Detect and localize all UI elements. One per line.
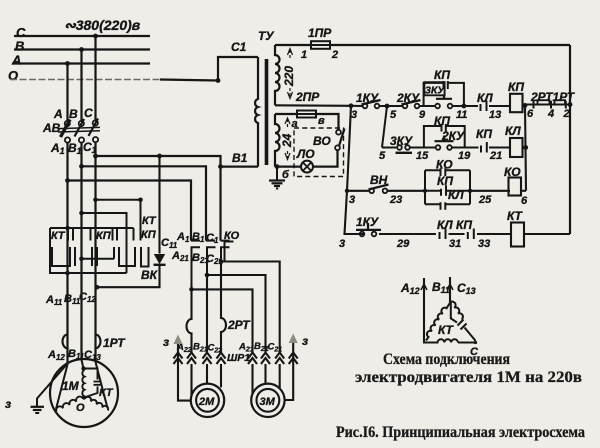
motor 1M stator circle xyxy=(50,359,118,427)
wire fuse to VO switch xyxy=(316,114,339,130)
svg-text:B: B xyxy=(69,107,78,121)
wire C22 down with 2RT heater xyxy=(221,262,226,353)
wire 24V bottom b xyxy=(275,166,301,168)
wire 24V tap a to fuse xyxy=(275,113,297,115)
wire B21 tap to 3M xyxy=(207,275,266,352)
wire net B1 xyxy=(82,166,207,240)
svg-text:2М: 2М xyxy=(198,396,215,408)
wires into motor 2M xyxy=(192,364,222,396)
svg-text:∾380(220)в: ∾380(220)в xyxy=(64,17,141,33)
svg-text:ВК: ВК xyxy=(141,268,159,282)
svg-text:КТ: КТ xyxy=(51,230,66,242)
svg-text:3КУ: 3КУ xyxy=(425,85,445,97)
svg-text:O: O xyxy=(8,68,18,83)
svg-text:КП: КП xyxy=(508,80,524,94)
contact block upper bus xyxy=(50,227,134,229)
wire control row 3 xyxy=(347,190,510,192)
svg-text:з: з xyxy=(163,335,169,349)
svg-text:C1: C1 xyxy=(231,40,247,54)
svg-text:з: з xyxy=(302,334,308,348)
svg-text:9: 9 xyxy=(419,109,426,121)
motor 1M winding C xyxy=(96,362,108,408)
fuse on 24V line xyxy=(297,111,316,118)
contact block lower brackets xyxy=(52,247,149,267)
svg-text:ТУ: ТУ xyxy=(258,29,274,43)
wire phase A column xyxy=(66,143,68,365)
svg-text:ЛО: ЛО xyxy=(296,147,315,161)
wire collector vertical xyxy=(525,105,526,190)
wire net C1 to transformer xyxy=(96,156,221,241)
svg-text:23: 23 xyxy=(389,194,402,206)
wire phase C bus xyxy=(14,35,150,37)
svg-text:1М: 1М xyxy=(62,379,80,393)
button 3KU with box xyxy=(424,82,444,95)
svg-text:КП: КП xyxy=(434,68,450,82)
connector ShR1 pin arrows xyxy=(174,353,298,365)
transformer TU secondary 220V winding xyxy=(275,45,280,105)
wire phase A bus xyxy=(12,62,150,64)
svg-text:5: 5 xyxy=(379,150,386,162)
enclosure dashed box VO LO xyxy=(294,128,344,177)
svg-text:25: 25 xyxy=(478,194,492,206)
wire block net D2 xyxy=(82,213,127,273)
delta winding left xyxy=(426,302,451,341)
connector upper feet xyxy=(191,240,230,242)
svg-text:11: 11 xyxy=(456,109,467,121)
dimension 24 label xyxy=(285,118,290,160)
delta winding B stub xyxy=(451,302,457,323)
dimension 220 label xyxy=(288,49,293,99)
svg-text:КЛ: КЛ xyxy=(477,91,493,105)
svg-text:КТ: КТ xyxy=(507,209,524,223)
wire diode to phase C xyxy=(97,265,160,287)
svg-text:220: 220 xyxy=(282,66,296,87)
transformer TU primary winding xyxy=(255,57,258,167)
svg-text:Рис.I6. Принципиальная электро: Рис.I6. Принципиальная электросхема xyxy=(336,424,585,441)
wire C21 tap to 3M xyxy=(221,262,280,353)
svg-text:A: A xyxy=(53,107,63,121)
motor 3M xyxy=(251,384,284,417)
svg-text:24: 24 xyxy=(280,133,294,148)
delta lead B xyxy=(449,277,451,302)
svg-text:КТ: КТ xyxy=(438,323,455,337)
svg-text:B1: B1 xyxy=(232,151,248,165)
ground at transformer xyxy=(269,167,285,189)
wire phase B bus xyxy=(14,48,150,50)
connector lower halves xyxy=(192,247,230,289)
svg-text:КТ: КТ xyxy=(142,215,157,227)
wire phase B drop xyxy=(80,50,82,121)
wires into motor 3M xyxy=(253,364,280,394)
contact KP row4 xyxy=(468,229,474,240)
wire A22 down with 2RT heater xyxy=(187,289,192,352)
svg-text:19: 19 xyxy=(458,150,471,162)
svg-text:2РТ: 2РТ xyxy=(227,318,251,332)
svg-text:электродвигателя 1М на 220в: электродвигателя 1М на 220в xyxy=(355,369,582,386)
svg-text:б: б xyxy=(282,169,290,181)
svg-text:21: 21 xyxy=(489,150,502,162)
svg-text:ШР1: ШР1 xyxy=(227,352,250,364)
wire control row 1 xyxy=(351,105,510,107)
svg-text:2: 2 xyxy=(563,108,570,120)
svg-text:3: 3 xyxy=(349,194,355,206)
svg-text:КП: КП xyxy=(141,229,157,241)
svg-text:КЛ: КЛ xyxy=(448,188,464,202)
transformer TU secondary 24V winding xyxy=(275,114,280,167)
svg-text:3: 3 xyxy=(351,109,357,121)
wire KO branch xyxy=(225,242,234,262)
svg-text:6: 6 xyxy=(527,108,534,120)
wire left rail xyxy=(345,106,363,234)
wire net A1 xyxy=(68,181,192,241)
svg-text:5: 5 xyxy=(390,109,397,121)
svg-text:КП: КП xyxy=(476,127,492,141)
svg-text:4: 4 xyxy=(547,108,554,120)
wire block mid tap xyxy=(82,258,115,260)
svg-text:33: 33 xyxy=(478,238,490,250)
contact KO top branch xyxy=(425,169,470,171)
svg-text:1РТ: 1РТ xyxy=(103,336,126,350)
svg-text:31: 31 xyxy=(449,238,461,250)
wire control row 2 xyxy=(382,146,510,148)
wire branch row1 to row2 xyxy=(382,106,387,148)
wire phase C column xyxy=(94,142,96,362)
svg-text:КЛ КП: КЛ КП xyxy=(437,218,472,232)
transformer TU core xyxy=(265,59,269,165)
heater 1RT phase C xyxy=(96,335,101,349)
contact KL row4 xyxy=(440,229,446,240)
diode VK xyxy=(154,254,165,264)
svg-text:2: 2 xyxy=(331,49,338,61)
svg-text:B: B xyxy=(15,39,24,54)
svg-text:з: з xyxy=(5,397,11,411)
svg-text:AB: AB xyxy=(42,121,61,135)
circuit breaker AB xyxy=(58,119,100,143)
contact block upper legs xyxy=(50,228,134,241)
svg-text:3М: 3М xyxy=(260,396,276,408)
svg-text:Схема подключения: Схема подключения xyxy=(383,351,510,368)
wire phase C drop xyxy=(94,36,96,121)
delta winding bottom xyxy=(424,339,475,342)
motor 2M xyxy=(191,384,224,417)
svg-text:13: 13 xyxy=(489,109,501,121)
svg-text:6: 6 xyxy=(521,195,528,207)
wire B21 down xyxy=(206,275,208,352)
wire VO to lamp xyxy=(313,150,338,166)
svg-text:О: О xyxy=(76,402,85,414)
wire transformer primary top xyxy=(218,57,258,81)
wire A21 tap to 3M xyxy=(192,289,253,352)
heater 1RT phase A xyxy=(63,335,68,349)
delta winding right with KT contact xyxy=(451,302,463,320)
svg-text:КТ: КТ xyxy=(99,387,114,399)
wire neutral O bus xyxy=(10,79,160,81)
contact KT inside motor xyxy=(84,369,98,398)
wire control row 4 xyxy=(363,233,571,235)
svg-text:1ПР: 1ПР xyxy=(308,26,332,40)
wire phase A drop xyxy=(66,64,68,121)
svg-text:29: 29 xyxy=(396,238,410,250)
wire block net D3 xyxy=(96,200,141,241)
wire phase B column xyxy=(80,143,82,360)
motor 1M winding B vertical xyxy=(82,360,84,369)
svg-text:3: 3 xyxy=(339,238,345,250)
svg-text:КП: КП xyxy=(96,230,112,242)
wire right rail xyxy=(569,45,571,234)
delta lead A xyxy=(423,278,425,343)
wire 220V top to fuse 1PR xyxy=(275,44,311,46)
contact 2RT NC xyxy=(525,104,570,106)
svg-text:в: в xyxy=(318,115,325,127)
svg-text:1: 1 xyxy=(301,49,307,61)
svg-text:A: A xyxy=(11,53,21,68)
motor 1M winding A xyxy=(56,365,68,410)
svg-text:C: C xyxy=(84,106,93,120)
wire top rail to right xyxy=(330,44,570,46)
svg-text:2ПР: 2ПР xyxy=(295,90,320,104)
svg-text:ВО: ВО xyxy=(313,134,331,148)
svg-text:15: 15 xyxy=(416,150,429,162)
wire block bottom bus xyxy=(50,241,127,274)
svg-text:КЛ: КЛ xyxy=(505,124,521,138)
